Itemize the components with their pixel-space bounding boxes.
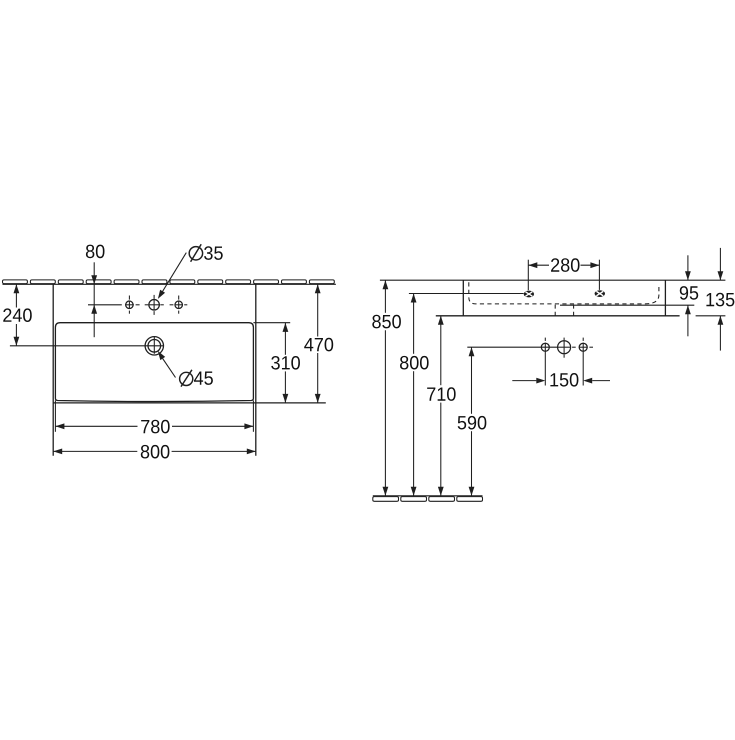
- drain hole circles (D45): [145, 337, 163, 355]
- basin inner rim: [55, 323, 253, 402]
- basin outer left edge: [52, 284, 54, 455]
- label D45: [180, 372, 193, 385]
- dimension 280: [528, 264, 599, 266]
- dimension 710: [440, 316, 442, 496]
- faucet center line: [88, 304, 122, 306]
- 135 lower extension: [696, 315, 726, 317]
- dimension 310: [284, 323, 286, 403]
- drain center line: [10, 345, 164, 347]
- dimension 800: [53, 450, 256, 452]
- fixing hole center: [558, 341, 571, 354]
- hidden drain dashes: [554, 305, 556, 316]
- basin outer right edge: [255, 284, 257, 455]
- wall line: [3, 283, 336, 285]
- dimension 95: [687, 255, 689, 336]
- top reference line: [380, 279, 726, 281]
- fixing holes crosshair dashes: [545, 338, 593, 386]
- faucet hole middle (D35): [149, 300, 160, 311]
- dimension 850: [384, 280, 386, 496]
- faucet centerline dashes: [125, 295, 187, 315]
- leader for D35: [162, 253, 186, 292]
- basin outer bottom line (ext to 470/310 dims): [53, 402, 326, 404]
- overflow hole left: [524, 291, 534, 298]
- dimension 780: [55, 425, 253, 427]
- dimension 800 (right view): [413, 294, 415, 496]
- 280 extension lines: [527, 260, 529, 291]
- fixing hole left: [541, 343, 549, 351]
- 780 extension lines: [54, 401, 56, 432]
- fixing holes center line: [467, 346, 558, 348]
- dimension 240: [15, 284, 17, 346]
- faucet hole right: [175, 301, 183, 309]
- profile bottom line (with 710 ext): [436, 315, 680, 317]
- dimension 80: [93, 262, 95, 337]
- floor tiles: [373, 497, 483, 502]
- floor line: [373, 495, 483, 497]
- drain hole crosshair: [153, 337, 155, 354]
- 310 top extension (rim top edge extended): [253, 322, 290, 324]
- profile left edge: [462, 280, 464, 316]
- profile right edge: [664, 280, 666, 316]
- label D35: [189, 247, 202, 260]
- dimension 470: [317, 284, 319, 403]
- dimension 590: [471, 347, 473, 496]
- leader for D45: [163, 358, 176, 377]
- overflow hole right: [595, 290, 605, 297]
- dimension 135: [719, 248, 721, 351]
- faucet hole left: [126, 301, 134, 309]
- inner bottom solid line (95 ref): [560, 304, 694, 306]
- 800 level line: [409, 293, 524, 295]
- hidden inner contour (dashed): [469, 282, 659, 304]
- fixing hole right: [579, 343, 587, 351]
- dimension 150: [512, 380, 610, 382]
- wall tiles: [3, 280, 335, 284]
